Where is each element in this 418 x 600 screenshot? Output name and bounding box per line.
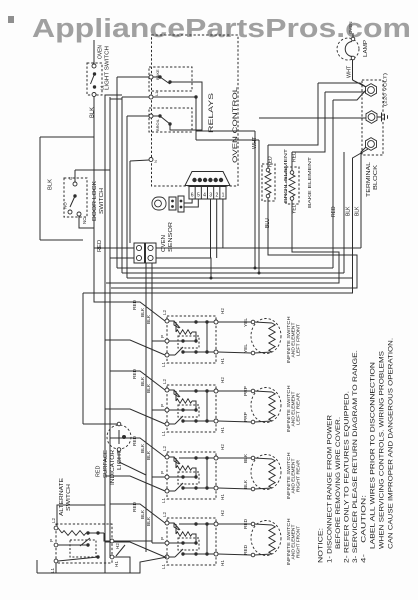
alt dots [86, 531, 89, 534]
svg-text:OVEN CONTROL: OVEN CONTROL [232, 86, 239, 163]
contact path L2-H2 RED [169, 523, 214, 530]
svg-text:H2: H2 [220, 510, 225, 516]
wire pin6 to sensor [184, 199, 192, 203]
relay K2 blade [160, 116, 170, 124]
door lock terminal C [73, 182, 77, 186]
P line dots RED [181, 541, 184, 544]
svg-text:LIGHT SWITCH: LIGHT SWITCH [105, 46, 111, 90]
inner dashed box BLK [178, 472, 199, 484]
relay K1 contact dot [158, 75, 161, 78]
svg-text:DOOR LOCK: DOOR LOCK [92, 180, 98, 221]
bake element terminal bottom [290, 197, 294, 201]
terminal L1 PRP [165, 422, 169, 426]
alt wire H2 out [114, 540, 152, 542]
alt wire H2 link [104, 533, 110, 541]
riser to surface indicator [82, 293, 84, 424]
svg-text:2- REFER ONLY TO FEATURES EQUI: 2- REFER ONLY TO FEATURES EQUIPPED. [345, 391, 351, 563]
svg-text:BLK: BLK [243, 479, 249, 489]
svg-text:RELAYS: RELAYS [208, 93, 215, 133]
riser RED (lug1 to staircase) [332, 100, 334, 268]
svg-text:L1: L1 [161, 430, 166, 436]
terminal L2 RED [165, 521, 169, 525]
wire run broil-relay [127, 277, 353, 279]
pilot resistor link PRP [192, 401, 196, 410]
bus top bend A [105, 95, 122, 97]
element lead top RED [255, 524, 273, 525]
svg-text:H2: H2 [220, 308, 225, 314]
wire block right b [156, 258, 211, 278]
riser bake [116, 77, 118, 268]
wire P line RED [169, 542, 196, 544]
svg-text:BLK: BLK [146, 383, 152, 393]
alt wire L1 down [37, 560, 56, 573]
svg-text:YEL: YEL [243, 318, 249, 327]
svg-text:NOTICE:: NOTICE: [319, 528, 325, 563]
svg-text:1- DISCONNECT RANGE FROM POWER: 1- DISCONNECT RANGE FROM POWER [328, 414, 334, 563]
svg-text:RED: RED [132, 501, 138, 512]
svg-text:RED: RED [132, 435, 138, 446]
oven light switch contact upper [93, 72, 96, 75]
bake element coil [289, 175, 295, 197]
terminal BAKE on oven control [149, 75, 153, 79]
alt resistor [62, 531, 86, 536]
svg-text:PRP: PRP [243, 412, 249, 422]
svg-text:4- CAUTION:: 4- CAUTION: [362, 494, 368, 563]
door lock terminal NC [77, 212, 81, 216]
inner dashed box RED [178, 538, 199, 550]
svg-text:PRP: PRP [243, 386, 249, 396]
blade lower YEL [175, 347, 183, 355]
blade lower RED [175, 549, 183, 557]
pilot resistor BLK [176, 466, 192, 470]
svg-text:BLK: BLK [140, 509, 146, 519]
wire L1 lead [122, 96, 149, 98]
wire L1 common [153, 96, 196, 98]
svg-text:WHT: WHT [347, 65, 353, 78]
svg-text:BLK: BLK [48, 179, 54, 190]
svg-text:BLK: BLK [355, 206, 361, 216]
element lead top BLK [255, 458, 273, 459]
oven sensor plug a pins [171, 200, 174, 203]
wire pin3 down [210, 199, 212, 258]
svg-text:ALTERNATE: ALTERNATE [59, 477, 65, 516]
element lead bottom PRP [255, 421, 273, 422]
svg-text:WHEN SERVICING CONTROLS. WIRIN: WHEN SERVICING CONTROLS. WIRING PROBLEMS [380, 351, 386, 549]
svg-text:RED: RED [243, 544, 249, 555]
terminal H2 BLK [214, 456, 218, 460]
feed L2 RED [110, 504, 165, 523]
surface indicator terminal bottom [117, 448, 121, 452]
terminal block lug N (middle) [366, 111, 377, 124]
relay WHT output 2 [196, 139, 259, 141]
pilot resistor RED [176, 532, 192, 536]
junction dots bottom BLK [181, 486, 184, 489]
contact path L1-H1 RED [169, 554, 214, 557]
wire run L1 [122, 272, 344, 274]
connector block left pins [136, 245, 141, 250]
connector P1 cell dividers [194, 187, 196, 200]
feed L2 BLK [110, 438, 165, 457]
svg-text:SWITCH: SWITCH [66, 484, 72, 511]
contact path L1-H1 BLK [169, 488, 214, 491]
svg-text:H1: H1 [220, 358, 225, 364]
bus BLK A [104, 97, 106, 573]
element terminal b BLK [251, 487, 255, 491]
svg-text:RED: RED [132, 368, 138, 379]
bake element terminal top [290, 171, 294, 175]
relay K1 dashed box [149, 67, 192, 91]
svg-text:BLK: BLK [90, 107, 96, 118]
pilot resistor PRP [176, 399, 192, 403]
svg-text:L2: L2 [162, 378, 167, 384]
svg-text:RED: RED [331, 206, 337, 217]
svg-text:5: 5 [197, 193, 200, 199]
wire pin2 down [216, 199, 218, 258]
connector P1 pin dots [192, 178, 196, 182]
terminal L2 YEL [165, 319, 169, 323]
svg-text:NO: NO [63, 202, 68, 209]
svg-text:BLK: BLK [346, 206, 352, 216]
svg-text:P: P [49, 539, 54, 542]
link H2-H1 BLK [206, 458, 208, 488]
riser L1 [121, 97, 123, 273]
surface indicator terminal top [117, 422, 121, 426]
alt terminal H1 [110, 555, 114, 559]
wire feed lug1 c RED [333, 90, 366, 100]
relay K1 blade [160, 77, 170, 84]
svg-text:L2: L2 [162, 511, 167, 517]
bake element dashed box [286, 167, 299, 204]
svg-text:H2: H2 [115, 543, 120, 549]
svg-text:LEFT FRONT: LEFT FRONT [295, 324, 300, 356]
riser N down to connector [129, 161, 131, 243]
junction dots bottom PRP [181, 419, 184, 422]
link H2-H1 YEL [206, 322, 208, 352]
riser WHT1 [254, 131, 256, 268]
svg-text:P: P [160, 404, 165, 407]
link H2-H1 PRP [206, 391, 208, 421]
wire P line BLK [169, 476, 196, 478]
svg-text:1: 1 [222, 193, 225, 199]
infinite switch dashed box RIGHT REAR [167, 452, 216, 499]
svg-text:L1: L1 [161, 361, 166, 367]
wire H2-element YEL [218, 321, 251, 323]
svg-text:BLU: BLU [265, 218, 271, 228]
feed P RED [152, 542, 165, 544]
wire YEL bake bottom [106, 200, 339, 283]
wire left riser BLK [39, 137, 41, 240]
oven light switch terminal top [92, 64, 96, 68]
junction dots top RED [194, 522, 197, 525]
wire run bake-relay [117, 267, 333, 269]
terminal H1 PRP [214, 419, 218, 423]
svg-text:RED: RED [132, 299, 138, 310]
svg-text:SWITCH: SWITCH [99, 188, 105, 214]
riser lug1-a to broil [268, 83, 318, 145]
door lock terminal NO [68, 210, 72, 214]
wire bend to left riser [40, 136, 94, 138]
broil element coil [265, 172, 271, 194]
oven lamp terminal top [351, 37, 355, 41]
blade arrow YEL [174, 321, 180, 328]
infinite switch dashed box LEFT REAR [167, 385, 216, 432]
svg-text:YEL: YEL [243, 344, 249, 353]
terminal block lug L2 (bottom) [366, 138, 377, 151]
alt wire bottom [58, 557, 98, 561]
broil element terminal bottom [266, 194, 270, 198]
terminal L2 PRP [165, 388, 169, 392]
riser to bake-line (staircase 273) [343, 152, 345, 273]
relay K2 stub [153, 115, 160, 117]
element coil YEL [269, 323, 275, 352]
feed L1 PRP [105, 409, 165, 424]
junction dots top PRP [194, 389, 197, 392]
surface indicator lamp dot [122, 435, 126, 439]
alt terminal H2 [110, 539, 114, 543]
wire BLU broil bottom [111, 198, 357, 289]
svg-text:P: P [160, 335, 165, 338]
terminal N on oven control [149, 158, 153, 162]
terminal H1 YEL [214, 350, 218, 354]
alt inner dashed box [70, 540, 96, 557]
element terminal b PRP [251, 420, 255, 424]
relay K2 dashed box [149, 108, 192, 132]
svg-text:OVEN: OVEN [98, 45, 104, 59]
wire BLK from light switch down [93, 97, 95, 138]
element terminal a BLK [251, 456, 255, 460]
pilot resistor link RED [192, 534, 196, 543]
connector P1 body [189, 187, 226, 200]
svg-text:N: N [153, 160, 158, 163]
wire BAKE lead [117, 76, 149, 78]
junction dots top BLK [194, 456, 197, 459]
wire block right a (to terminal block lug3) [156, 247, 361, 249]
door lock blade [70, 196, 75, 207]
wire H1-element BLK [218, 488, 251, 489]
contact path L2-H2 BLK [169, 457, 214, 464]
wire lamp stub up [352, 33, 354, 37]
oven lamp dashed circle [337, 38, 359, 60]
wire block to bus a [94, 247, 134, 249]
element circle YEL [251, 319, 281, 354]
element terminal a YEL [251, 320, 255, 324]
wire BROIL lead [127, 115, 149, 117]
junction dots bottom YEL [181, 350, 184, 353]
riser WHT2 [258, 140, 260, 273]
wire WHT lamp down [352, 60, 354, 80]
blade lower BLK [175, 483, 183, 491]
connector block right pins [148, 245, 153, 250]
oven light switch terminal bottom [92, 93, 96, 97]
terminal H2 YEL [214, 320, 218, 324]
wire bottom run [37, 557, 167, 573]
feed P PRP [152, 409, 165, 411]
door lock contact [73, 194, 76, 197]
svg-text:P: P [160, 537, 165, 540]
svg-text:SURFACE: SURFACE [103, 449, 109, 478]
svg-text:BLOCK: BLOCK [373, 164, 379, 190]
pilot resistor link YEL [192, 332, 196, 341]
feed P BLK [152, 476, 165, 478]
svg-text:CAN CAUSE IMPROPER AND DANGERO: CAN CAUSE IMPROPER AND DANGEROUS OPERATI… [389, 338, 395, 549]
wire lamp diag into lug1 [353, 80, 367, 87]
svg-text:H2: H2 [220, 377, 225, 383]
svg-text:H1: H1 [220, 560, 225, 566]
wire P line YEL [169, 340, 196, 342]
element terminal a PRP [251, 389, 255, 393]
element lead top PRP [255, 391, 273, 392]
terminal H1 RED [214, 552, 218, 556]
svg-text:BAKE ELEMENT: BAKE ELEMENT [307, 157, 313, 208]
oven control dashed box [152, 35, 239, 186]
P line dots BLK [181, 475, 184, 478]
svg-text:L1: L1 [154, 91, 159, 96]
svg-text:LEFT REAR: LEFT REAR [295, 393, 300, 425]
alt terminal L2 [54, 526, 58, 530]
ground symbol at neutral lug [378, 113, 388, 122]
alt feed L2 [57, 505, 105, 526]
wire lug3 drop a BLK [361, 147, 366, 248]
junction staircase c [210, 277, 213, 280]
element coil RED [269, 525, 275, 554]
pilot resistor link BLK [192, 468, 196, 477]
terminal block lug L1 (top) [366, 84, 377, 97]
svg-text:P: P [160, 471, 165, 474]
terminal L1 YEL [165, 353, 169, 357]
element lead top YEL [255, 322, 273, 323]
svg-text:H2: H2 [220, 444, 225, 450]
element coil BLK [269, 459, 275, 488]
junction dot L1 [194, 95, 197, 98]
connector block left [134, 243, 145, 263]
riser sensor return b [151, 263, 153, 543]
svg-text:RED: RED [292, 151, 298, 162]
oven sensor bulb [152, 197, 166, 210]
wire lug3 drop b BLK [83, 149, 368, 293]
svg-text:H1: H1 [114, 561, 119, 567]
door lock wire C to bus [75, 169, 110, 171]
terminal L1 on oven control [149, 95, 153, 99]
oven light switch blade [91, 74, 95, 84]
link H2-H1 RED [206, 524, 208, 554]
wire H1-element PRP [218, 421, 251, 422]
feed L1 RED [105, 542, 165, 557]
relay K2 junction dot [168, 122, 171, 125]
terminal H2 PRP [214, 389, 218, 393]
bus BLK B [109, 97, 111, 558]
terminal P YEL [165, 339, 169, 343]
oven sensor plug b pins [180, 200, 183, 203]
svg-text:TERMINAL: TERMINAL [366, 162, 372, 197]
wire feed lug2 (neutral WHT) [259, 117, 366, 119]
P line dots YEL [181, 339, 184, 342]
svg-text:4: 4 [203, 193, 206, 199]
surface indicator lamp stem [118, 430, 120, 444]
relay K1 output loop [170, 82, 202, 130]
svg-text:C: C [68, 176, 73, 180]
svg-text:(220 VOLT): (220 VOLT) [383, 72, 389, 106]
svg-text:2: 2 [215, 193, 218, 199]
wire pin1 down [222, 199, 224, 248]
riser sensor return a [145, 263, 147, 552]
wire bake top [291, 152, 293, 171]
blade arrow PRP [174, 390, 180, 397]
alt terminal P [54, 543, 58, 547]
wire N to surface light [83, 423, 117, 425]
wire H2-element PRP [218, 390, 251, 392]
junction staircase a [254, 267, 257, 270]
wire block to bus b [110, 257, 134, 259]
element lead bottom YEL [255, 352, 273, 353]
feed L1 BLK [105, 476, 165, 491]
terminal H2 RED [214, 522, 218, 526]
svg-text:BEFORE REMOVING WIRE COVER.: BEFORE REMOVING WIRE COVER. [336, 417, 342, 549]
svg-text:BROIL: BROIL [155, 118, 160, 131]
broil element dashed box [262, 164, 275, 201]
svg-text:OVEN: OVEN [161, 235, 167, 252]
svg-text:L1: L1 [161, 563, 166, 569]
svg-text:YEL: YEL [292, 204, 298, 214]
wire RED from door lock NC [79, 216, 110, 303]
svg-text:BLK: BLK [140, 376, 146, 386]
wire feed lug1 b [325, 91, 365, 93]
broil element terminal top [266, 168, 270, 172]
junction staircase b [258, 272, 261, 275]
wire H2-element BLK [218, 457, 251, 459]
oven sensor bulb circle [155, 200, 162, 207]
svg-text:3: 3 [209, 193, 212, 199]
element circle PRP [251, 388, 281, 423]
svg-text:H1: H1 [220, 427, 225, 433]
oven sensor plug b [178, 196, 184, 212]
svg-text:L1: L1 [100, 85, 105, 90]
svg-text:BLK: BLK [146, 314, 152, 324]
element terminal b YEL [251, 351, 255, 355]
wire H1-element YEL [218, 352, 251, 353]
alt terminal L1 [54, 559, 58, 563]
wire broil top [267, 145, 269, 169]
svg-text:LABEL ALL WIRES PRIOR TO DISCO: LABEL ALL WIRES PRIOR TO DISCONNECTION [371, 362, 377, 549]
contact path L1-H1 PRP [169, 421, 214, 424]
blade arrow RED [174, 523, 180, 530]
pilot resistor feed PRP [175, 391, 177, 401]
svg-text:BLK: BLK [146, 450, 152, 460]
wire N lead [130, 160, 149, 161]
wire H1-element RED [218, 554, 251, 555]
terminal P RED [165, 541, 169, 545]
wire P line PRP [169, 409, 196, 411]
inner dashed box PRP [178, 405, 199, 417]
feed L2 YEL [110, 302, 165, 321]
junction dots top YEL [194, 320, 197, 323]
alt blade [80, 538, 90, 546]
svg-text:6: 6 [191, 193, 194, 199]
element circle BLK [251, 455, 281, 490]
svg-text:L1: L1 [50, 567, 55, 573]
inner dashed box YEL [178, 336, 199, 348]
element coil PRP [269, 392, 275, 421]
svg-text:RIGHT REAR: RIGHT REAR [295, 460, 300, 492]
contact path L1-H1 YEL [169, 352, 214, 355]
relay K1 output dot [168, 80, 171, 83]
wire bottom of left riser to N-riser [40, 239, 83, 241]
relay K2 contact dot [158, 114, 161, 117]
infinite switch dashed box RIGHT FRONT [167, 518, 216, 565]
blade lower PRP [175, 416, 183, 424]
svg-text:LIGHT: LIGHT [117, 449, 123, 470]
oven light switch S1 dashed box [87, 63, 102, 95]
feed L1 YEL [105, 340, 165, 355]
